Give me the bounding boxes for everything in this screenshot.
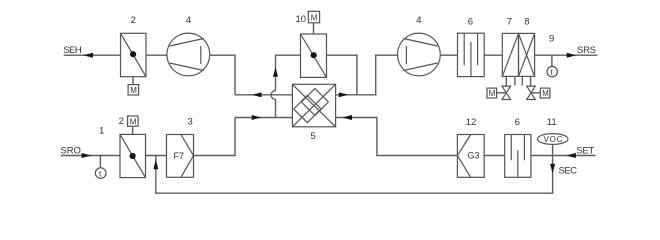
wire F7 to HX bottom-left riser bbox=[194, 118, 236, 156]
svg-text:9: 9 bbox=[549, 34, 554, 45]
wire filter 6 to coils bbox=[484, 54, 502, 56]
arrow exhaust leaving HX bbox=[252, 92, 262, 97]
wire G3 to filter 6 bbox=[484, 155, 505, 157]
wire SEH exhaust outlet line bbox=[64, 54, 121, 56]
wire HX bottom-left port bbox=[235, 117, 292, 119]
wire bypass riser with hop bbox=[271, 55, 300, 117]
wire HX bottom-right port from outdoor branch bbox=[336, 118, 458, 156]
temperature sensor 9 bbox=[547, 55, 557, 77]
svg-text:M: M bbox=[130, 86, 137, 95]
svg-text:5: 5 bbox=[311, 131, 316, 142]
svg-text:1: 1 bbox=[99, 126, 104, 137]
arrow SRO flow right bbox=[82, 153, 92, 158]
damper 2 (exhaust) bbox=[121, 33, 147, 76]
actuator M of damper 10 bbox=[308, 11, 319, 34]
actuator M of valve 7 bbox=[487, 88, 497, 98]
svg-text:2: 2 bbox=[131, 15, 136, 26]
svg-text:M: M bbox=[130, 117, 137, 126]
wire SEC recirculation branch bbox=[156, 156, 553, 194]
filter G3 12 bbox=[457, 135, 484, 178]
svg-text:4: 4 bbox=[416, 15, 421, 26]
svg-text:SET: SET bbox=[576, 145, 594, 156]
arrow recirculation joining return bbox=[153, 160, 158, 170]
svg-text:SRO: SRO bbox=[60, 145, 81, 156]
wire fan to filter 6 bbox=[440, 54, 457, 56]
svg-text:4: 4 bbox=[186, 15, 191, 26]
wire HX top-left port bbox=[235, 94, 292, 96]
svg-text:SRS: SRS bbox=[577, 45, 596, 56]
arrow SEC flow down bbox=[550, 164, 555, 174]
wire filter 6 to SET inlet bbox=[531, 155, 596, 157]
wire damper 10 to merge point bbox=[327, 55, 357, 95]
cooling coil 8 bbox=[519, 33, 535, 76]
heat exchanger 5 (plate recuperator) bbox=[292, 84, 335, 127]
svg-text:12: 12 bbox=[466, 117, 477, 128]
wire coils to SRS outlet bbox=[535, 54, 598, 56]
svg-text:2: 2 bbox=[119, 116, 124, 127]
wire SRO return inlet line bbox=[61, 155, 120, 157]
svg-text:10: 10 bbox=[296, 14, 307, 25]
svg-text:M: M bbox=[311, 13, 318, 22]
arrow SRS flow right bbox=[567, 53, 577, 58]
fan 4 (supply fan, right) bbox=[398, 33, 441, 76]
wire damper 2 to fan bbox=[146, 54, 167, 56]
pipe stubs of coils bbox=[506, 76, 530, 86]
temperature sensor (return) bbox=[95, 156, 106, 179]
VOC sensor 11 bbox=[537, 134, 568, 156]
actuator M of damper 1 bbox=[128, 116, 139, 134]
arrow SEH flow left bbox=[83, 53, 93, 58]
svg-text:F7: F7 bbox=[174, 151, 185, 161]
filter 6 (supply bag filter) bbox=[458, 33, 485, 76]
arrow supply leaving HX bbox=[339, 92, 349, 97]
filter 6 (secondary bag filter) bbox=[505, 135, 531, 178]
svg-text:6: 6 bbox=[515, 117, 520, 128]
arrow bypass flow up bbox=[273, 67, 278, 77]
wire damper 1 to filter F7 bbox=[146, 155, 167, 157]
actuator M of valve 8 bbox=[540, 88, 550, 98]
actuator M of damper 2 bbox=[128, 77, 139, 95]
filter F7 3 bbox=[167, 135, 194, 178]
svg-text:G3: G3 bbox=[468, 151, 480, 161]
svg-text:M: M bbox=[489, 89, 496, 98]
fan 4 (exhaust fan, left) bbox=[167, 33, 210, 76]
svg-text:VOC: VOC bbox=[544, 135, 563, 144]
wire HX top-right port to supply riser bbox=[336, 55, 398, 95]
damper 1 (return) bbox=[120, 134, 146, 177]
valve of coil 8 bbox=[527, 86, 541, 99]
valve of coil 7 bbox=[497, 86, 511, 99]
wire fan to exhaust riser bbox=[210, 55, 235, 95]
svg-text:11: 11 bbox=[547, 117, 557, 128]
damper 10 (bypass) bbox=[301, 34, 327, 77]
svg-text:7: 7 bbox=[507, 17, 512, 28]
svg-text:SEH: SEH bbox=[63, 45, 82, 56]
arrow return entering HX bbox=[252, 115, 262, 120]
arrow SET flow left bbox=[566, 153, 576, 158]
arrow outdoor air entering HX bbox=[342, 115, 352, 120]
svg-text:8: 8 bbox=[524, 17, 529, 28]
svg-text:3: 3 bbox=[188, 117, 193, 128]
heating coil 7 bbox=[502, 33, 518, 76]
svg-text:6: 6 bbox=[468, 17, 473, 28]
svg-text:SEC: SEC bbox=[559, 166, 578, 177]
svg-text:M: M bbox=[542, 89, 549, 98]
